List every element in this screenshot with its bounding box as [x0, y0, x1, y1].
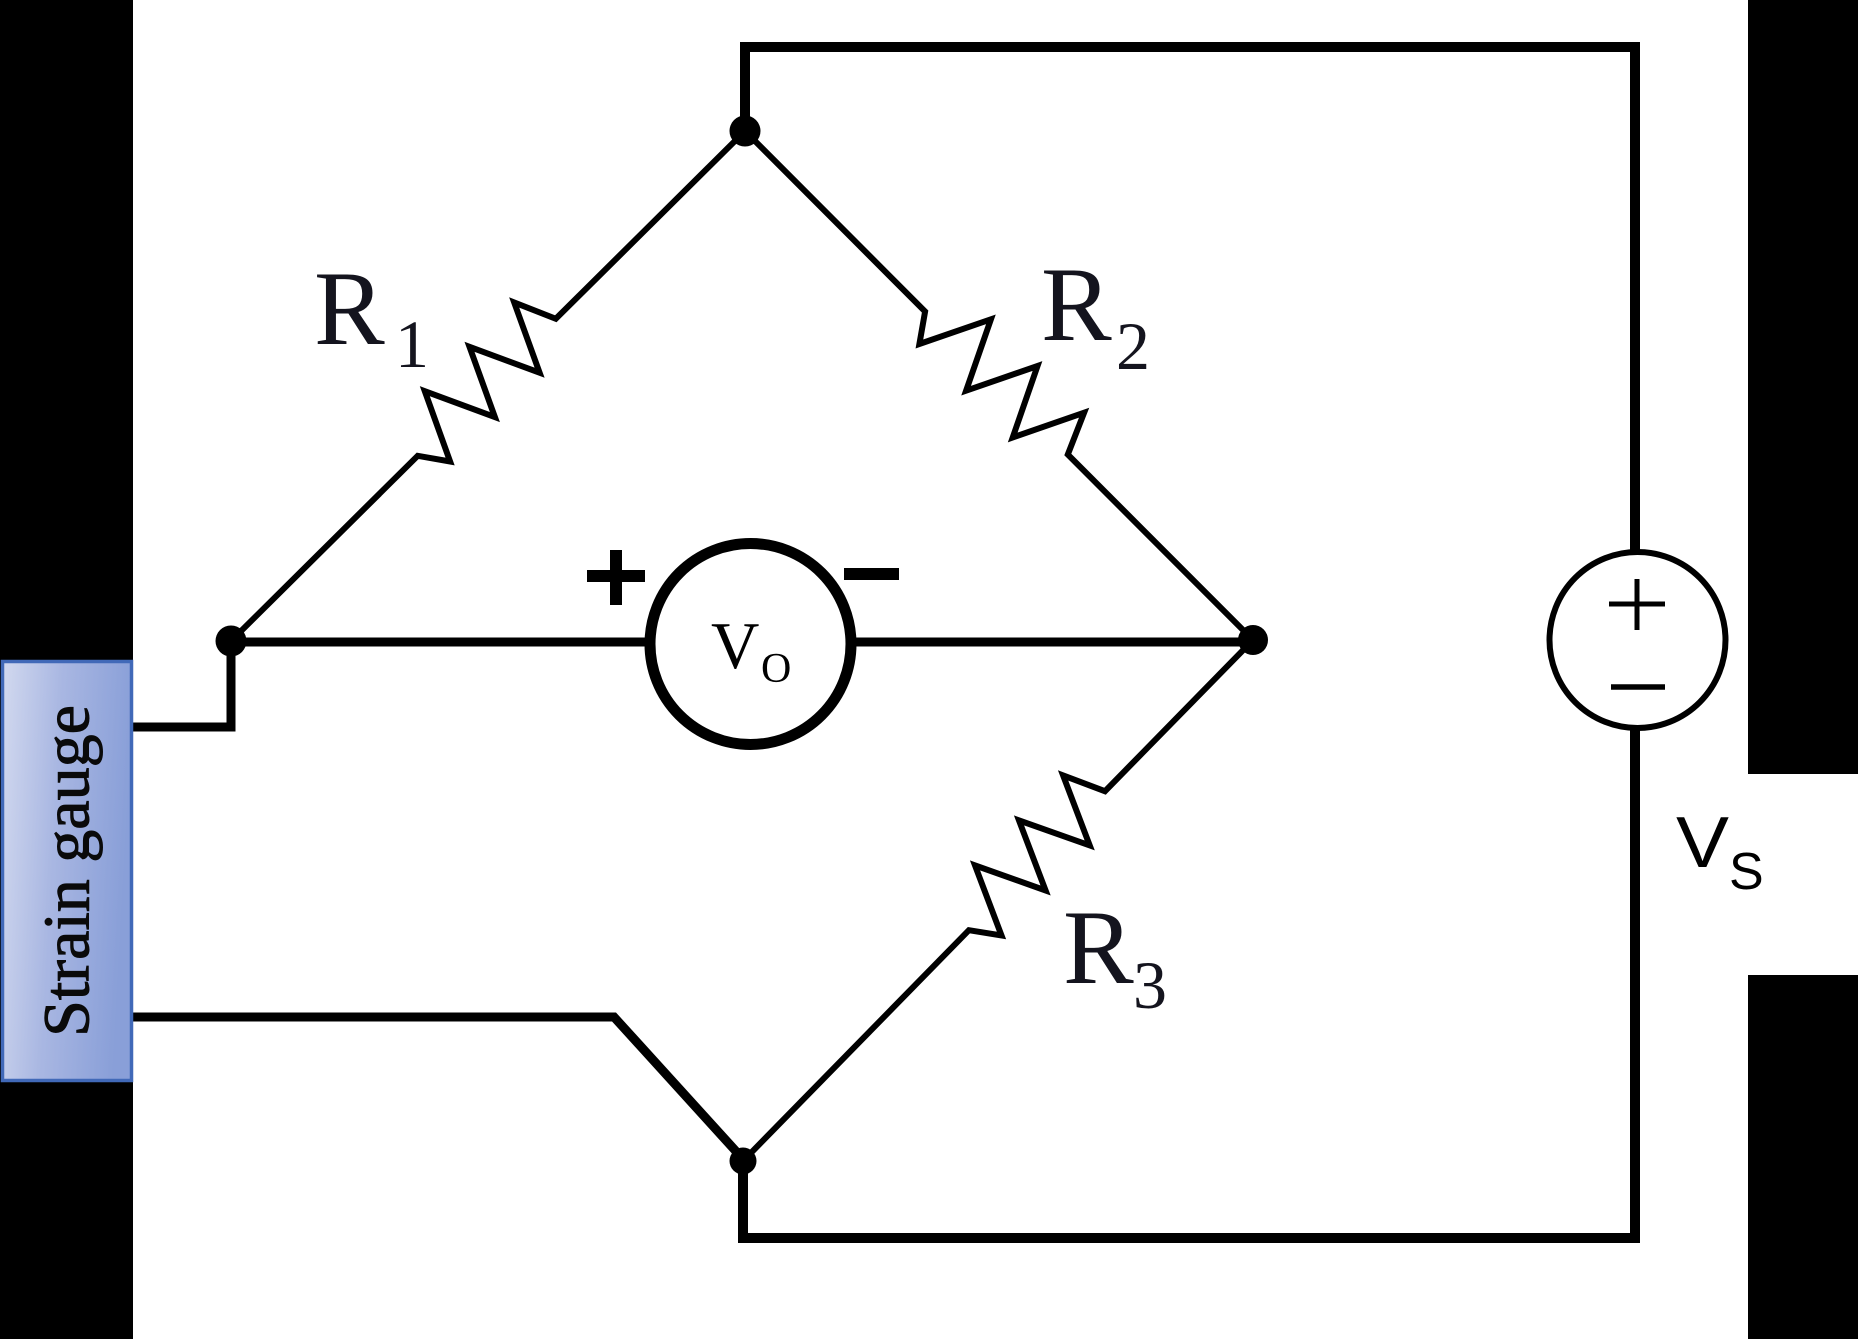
minus sign inside source: [1611, 684, 1665, 690]
resistor R2: [745, 131, 1253, 640]
voltmeter Vo circle: [650, 544, 851, 745]
resistor R1: [231, 131, 745, 641]
node right junction: [1238, 625, 1268, 655]
svg-text:R: R: [1063, 889, 1134, 1006]
wire top loop: top node up, across, down to source +: [745, 47, 1635, 554]
svg-text:V: V: [1676, 803, 1729, 883]
right black border bar lower: [1748, 975, 1858, 1339]
resistor R3: [743, 640, 1253, 1161]
svg-text:2: 2: [1116, 308, 1150, 384]
svg-text:R: R: [1041, 246, 1112, 363]
node top junction: [730, 116, 761, 147]
node bottom junction: [730, 1148, 757, 1175]
svg-text:Strain gauge: Strain gauge: [31, 705, 104, 1037]
wire mid horizontal through Vo: [231, 638, 1253, 647]
svg-text:V: V: [711, 609, 759, 683]
node left junction: [216, 626, 247, 657]
minus sign at Vo right: [844, 568, 899, 580]
voltage source Vs circle: [1550, 552, 1726, 728]
svg-text:S: S: [1729, 843, 1764, 901]
wire left node to strain gauge upper terminal: [133, 641, 231, 727]
plus sign at Vo left: [587, 550, 645, 605]
strain gauge box: [3, 662, 132, 1081]
svg-text:3: 3: [1133, 947, 1167, 1023]
svg-text:R: R: [314, 250, 385, 367]
left black border bar: [0, 0, 133, 1339]
right black border bar upper: [1748, 0, 1858, 774]
wire strain gauge lower terminal to bottom node: [133, 1017, 743, 1159]
wire bottom loop: source - down, across, up to bottom node: [743, 726, 1635, 1238]
svg-text:1: 1: [395, 306, 429, 382]
plus sign inside source: [1609, 579, 1665, 630]
svg-text:O: O: [761, 646, 791, 692]
